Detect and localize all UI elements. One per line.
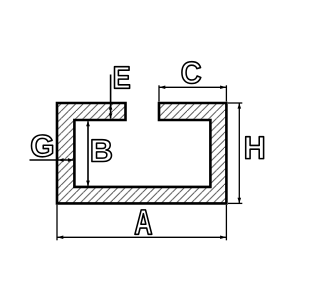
dimension C: extension line right (outer right edge extended up)	[225, 85, 227, 101]
dimension B: inner height dimension line	[86, 121, 90, 185]
dimension C: extension line left (slot right edge extended up)	[158, 85, 160, 101]
label A	[135, 210, 152, 234]
dimension G: leader line through left wall	[30, 158, 74, 162]
label H	[246, 137, 264, 159]
label B	[92, 140, 112, 162]
label E	[115, 67, 130, 89]
label G	[32, 135, 53, 157]
dimension A: extension line right	[225, 205, 227, 241]
dimension A: dimension line	[57, 236, 226, 240]
label C	[182, 62, 201, 84]
dimension C: dimension line	[159, 86, 226, 90]
dimension H: extension line bottom	[228, 202, 242, 204]
dimension A: extension line left	[56, 205, 58, 241]
dimension H: dimension line	[238, 103, 242, 203]
dimension E: leader line through top-left flange	[109, 75, 113, 119]
dimension H: extension line top	[228, 102, 242, 104]
profile body: hatched C-channel cross-section with top slot	[57, 103, 226, 203]
